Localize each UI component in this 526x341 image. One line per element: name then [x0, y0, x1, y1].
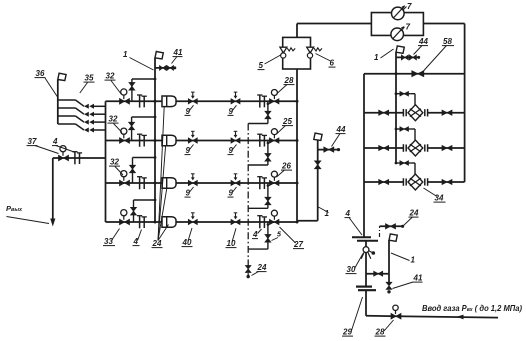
- valves 41: [160, 66, 177, 71]
- label 30: [346, 254, 364, 275]
- valve 9 row 2 (second): [231, 131, 240, 143]
- wire filter row 3: [364, 181, 465, 183]
- label 4 (row4 joint): [252, 229, 262, 239]
- svg-text:27: 27: [293, 240, 303, 249]
- outlet valve filter row 2: [442, 145, 452, 150]
- svg-text:32: 32: [110, 158, 119, 167]
- relief valve 5: [280, 47, 295, 58]
- wire left header: [105, 101, 107, 222]
- joint row 2 (right): [257, 134, 267, 147]
- inlet valve filter row 3: [379, 179, 389, 184]
- svg-text:7: 7: [406, 23, 411, 32]
- svg-text:44: 44: [336, 125, 346, 134]
- valve 9 row 1 (second): [231, 92, 240, 104]
- svg-text:44: 44: [418, 37, 428, 46]
- label 7 (top meter): [403, 2, 413, 11]
- regulator 24 row 4: [162, 217, 176, 228]
- inlet flow arrow: [457, 315, 464, 320]
- label 28 row1: [277, 76, 295, 94]
- wire collector to meter loop: [297, 24, 371, 38]
- drain outlet dot: [247, 275, 250, 278]
- flow meter 7 (top): [392, 5, 405, 19]
- wire blowdown row 2: [248, 141, 269, 166]
- check arrows on taps: [84, 104, 94, 133]
- valve 58: [412, 71, 424, 77]
- svg-text:36: 36: [36, 69, 45, 78]
- wire vent stack: [317, 140, 319, 221]
- label 9 row3 a: [185, 187, 194, 198]
- wire filter bypass row 2: [395, 128, 415, 140]
- label 33: [103, 229, 120, 247]
- svg-text:4: 4: [345, 209, 351, 218]
- joint 4 (output): [72, 152, 82, 165]
- label 5 (row4 blowdown): [272, 232, 282, 241]
- vent flag 36: [58, 73, 66, 80]
- wire row 3: [106, 182, 298, 184]
- bypass valve 2: [129, 122, 135, 130]
- gauge row 4 (right): [271, 210, 277, 220]
- wire below cock: [365, 252, 367, 286]
- wire collector: [296, 69, 298, 221]
- svg-text:10: 10: [227, 239, 236, 248]
- regulator 24 row 3: [162, 178, 176, 189]
- wire filter bypass row 3: [395, 162, 415, 174]
- label 36: [35, 69, 58, 97]
- label 24 (impulse): [404, 209, 419, 226]
- regulator valve row 2: [120, 138, 130, 144]
- svg-text:9: 9: [186, 146, 191, 155]
- node collector row 1: [296, 100, 299, 103]
- label Pvyh: [6, 204, 49, 224]
- label 9 row1 b: [228, 105, 237, 116]
- wire bus riser: [154, 58, 156, 102]
- svg-text:9: 9: [186, 107, 191, 116]
- label 7 (bottom meter): [401, 23, 411, 32]
- bypass valve 4: [131, 207, 137, 215]
- joint 4 row 1: [137, 95, 147, 108]
- gauge row 4: [121, 210, 127, 220]
- safety valve box: [283, 37, 311, 69]
- node collector row 3: [296, 182, 299, 185]
- wire vent pole 36: [57, 80, 59, 125]
- svg-text:6: 6: [330, 59, 335, 68]
- gauge valve row 1 (right): [269, 99, 279, 104]
- label 28 (inlet): [375, 320, 394, 337]
- blowdown valve row 2: [265, 154, 271, 162]
- label 4 row4: [133, 230, 142, 247]
- wire vent stack (inlet): [388, 240, 390, 274]
- wire to purge cock: [365, 241, 367, 247]
- regulator 24 row 1: [162, 96, 176, 107]
- node bus row 2: [154, 139, 157, 142]
- label 1 (inlet vent): [391, 253, 416, 265]
- wire blowdown row 1: [248, 101, 269, 123]
- valve 9 row 2 (first): [188, 131, 197, 143]
- node collector row 4: [296, 221, 299, 224]
- wire output branch: [53, 157, 106, 159]
- bypass valve 1: [129, 83, 135, 91]
- regulator 24 row 2: [162, 135, 176, 146]
- svg-text:58: 58: [443, 37, 452, 46]
- label 32 row1: [105, 72, 122, 95]
- svg-text:41: 41: [173, 48, 183, 57]
- svg-text:32: 32: [109, 115, 118, 124]
- valve 9 row 3 (first): [188, 174, 197, 186]
- label 32 row2: [108, 115, 123, 133]
- meter loop frame: [371, 13, 423, 36]
- svg-text:9: 9: [229, 107, 234, 116]
- svg-text:40: 40: [182, 238, 192, 247]
- svg-text:28: 28: [284, 76, 294, 85]
- svg-text:1: 1: [123, 50, 128, 59]
- svg-text:32: 32: [106, 72, 115, 81]
- joint 4 (main inlet): [352, 237, 378, 241]
- label 41 (drain): [393, 274, 423, 289]
- label 4 (output joint): [52, 137, 76, 153]
- wire impulse tee: [366, 273, 389, 275]
- gauge row 2 (right): [271, 129, 277, 139]
- label 9 row1 a: [185, 105, 194, 116]
- svg-text:9: 9: [229, 189, 234, 198]
- vent flag (bus): [155, 52, 163, 59]
- regulator valve row 4: [120, 219, 130, 225]
- joint row 1 (right): [257, 95, 267, 108]
- vent flag: [314, 133, 322, 140]
- label gas inlet text: [422, 304, 522, 313]
- valve 9 row 3 (second): [231, 174, 240, 186]
- gauge valve row 4 (right): [269, 219, 279, 224]
- wire output down: [52, 158, 54, 220]
- label 10: [226, 228, 237, 248]
- valve 9 row 4 (first): [188, 213, 197, 225]
- label 34: [424, 188, 446, 203]
- svg-text:29: 29: [342, 328, 352, 337]
- vent flag (inlet): [389, 234, 397, 241]
- label 58: [423, 37, 454, 72]
- wire bypass top: [364, 73, 465, 75]
- svg-text:1: 1: [374, 53, 379, 62]
- wire blowdown row 3: [248, 183, 269, 208]
- svg-text:Ввод газа Рвх ( до 1,2 МПа): Ввод газа Рвх ( до 1,2 МПа): [422, 304, 522, 313]
- label 9 row2 a: [185, 145, 194, 156]
- blowdown valve row 4: [265, 235, 271, 243]
- joint row 4 (right): [257, 216, 267, 229]
- gauge row 1 (right): [271, 90, 277, 100]
- label 32 row3: [109, 158, 123, 176]
- gauge row 3 (right): [271, 171, 277, 181]
- node bus row 4: [154, 221, 157, 224]
- joint 4 row 2: [137, 134, 147, 147]
- label 4 (main joint): [345, 209, 363, 235]
- wire bypass 4: [134, 199, 157, 222]
- wire branch 41: [155, 67, 175, 69]
- filter 34 row 3: [403, 174, 427, 190]
- wire drain below tee: [388, 274, 390, 284]
- relief valve 6: [307, 47, 322, 58]
- svg-text:9: 9: [229, 146, 234, 155]
- valves 44 (filter vent): [401, 55, 420, 60]
- drain valve 41: [386, 282, 392, 293]
- purge cock 30: [361, 247, 375, 259]
- node bus row 3: [154, 182, 157, 185]
- valve 24 (impulse): [386, 224, 405, 229]
- label 44 (filter vent): [414, 37, 429, 55]
- svg-text:34: 34: [435, 194, 444, 203]
- wire bus: [154, 101, 156, 222]
- wire collector elbow to vent stack: [297, 220, 318, 222]
- outlet valve filter row 1: [442, 110, 452, 115]
- node bus row 1: [154, 100, 157, 103]
- svg-text:35: 35: [85, 74, 94, 83]
- drain valve 24: [245, 266, 251, 273]
- wire bypass 3: [133, 156, 157, 183]
- label 26 row3: [277, 162, 293, 178]
- output arrow: [50, 219, 55, 227]
- wire branch 24 (impulse): [380, 226, 403, 237]
- svg-text:24: 24: [257, 263, 267, 272]
- wire row 1: [106, 100, 298, 102]
- flow meter 7 (bottom): [391, 26, 404, 40]
- label 9 row3 b: [228, 187, 237, 198]
- svg-text:41: 41: [413, 274, 423, 283]
- wire bypass 2: [132, 116, 157, 141]
- filter 34 row 1: [403, 105, 427, 121]
- inlet valve filter row 1: [379, 110, 389, 115]
- label 27 row4: [280, 227, 305, 249]
- regulator valve row 3: [120, 180, 130, 186]
- wire row 2: [106, 140, 298, 142]
- wire filter header: [395, 52, 398, 163]
- svg-text:4: 4: [252, 230, 258, 239]
- label 6: [316, 54, 336, 68]
- label 40: [182, 228, 193, 247]
- gauge row 2: [121, 128, 127, 138]
- svg-text:4: 4: [133, 237, 139, 246]
- label 24 (regulators): [152, 239, 163, 248]
- wire branch 44 (filter vent): [396, 56, 419, 58]
- vent flag (filter header): [396, 46, 404, 53]
- svg-text:26: 26: [281, 162, 291, 171]
- valve (impulse tee): [374, 271, 383, 276]
- svg-text:33: 33: [104, 237, 113, 246]
- valve 9 row 4 (second): [231, 213, 240, 225]
- wire meter loop to right riser: [423, 23, 464, 25]
- label 5: [258, 55, 282, 71]
- label 25 row2: [277, 117, 294, 134]
- bypass valve 3: [130, 165, 136, 173]
- gauge valve row 3 (right): [269, 180, 279, 185]
- bypass valve filter row 2: [400, 127, 409, 132]
- regulator valve row 1: [120, 99, 130, 105]
- svg-text:1: 1: [411, 256, 416, 265]
- bypass valve filter row 1: [400, 91, 409, 96]
- label 24 (drain): [252, 263, 267, 276]
- label 41: [172, 48, 183, 64]
- svg-text:28: 28: [375, 328, 385, 337]
- wire bypass 1: [132, 78, 157, 102]
- outlet valve filter row 3: [442, 179, 452, 184]
- label 1 (bus vent): [123, 50, 154, 70]
- gauge on valve 37: [60, 146, 66, 156]
- svg-text:4: 4: [52, 137, 58, 146]
- label 29: [342, 297, 363, 337]
- wire gas inlet: [366, 316, 498, 318]
- gauge on inlet valve: [393, 305, 398, 314]
- wire drain dash-dot: [247, 124, 249, 277]
- label 9 row2 b: [228, 145, 237, 156]
- svg-text:25: 25: [282, 117, 292, 126]
- wire left riser (filters): [363, 74, 365, 237]
- gauge row 3: [121, 171, 127, 181]
- valve 9 row 1 (first): [188, 92, 197, 104]
- inlet valve filter row 2: [379, 145, 389, 150]
- joint 29: [356, 287, 376, 291]
- node collector row 2: [296, 139, 299, 142]
- label 44: [332, 125, 346, 147]
- valve on vent stack: [315, 161, 321, 169]
- wire filter row 2: [364, 147, 465, 149]
- gauge row 1: [121, 89, 127, 99]
- svg-text:37: 37: [28, 137, 37, 146]
- wire inlet riser: [365, 290, 367, 316]
- filter 34 row 2: [403, 140, 427, 156]
- wires consumer taps: [58, 100, 106, 130]
- blowdown valve row 1: [265, 111, 271, 119]
- wire vent branch 44: [318, 149, 339, 151]
- wire right riser: [464, 24, 466, 183]
- svg-text:24: 24: [152, 239, 162, 248]
- valve 37: [59, 155, 69, 161]
- svg-text:30: 30: [347, 265, 356, 274]
- joint 4 row 4: [137, 216, 147, 229]
- svg-text:24: 24: [409, 209, 419, 218]
- label 1 (filter vent): [374, 49, 394, 62]
- blowdown valve row 3: [265, 197, 271, 205]
- svg-text:9: 9: [186, 189, 191, 198]
- svg-text:5: 5: [259, 61, 264, 70]
- bypass valve filter row 3: [400, 161, 409, 166]
- wire filter bypass row 1: [395, 92, 415, 104]
- wire blowdown row 4: [248, 222, 269, 249]
- joint 4 row 3: [137, 177, 147, 190]
- label 37: [27, 137, 59, 154]
- gauge valve row 2 (right): [269, 138, 279, 143]
- leaders 24 fan: [158, 107, 169, 241]
- label 1 (vent stack): [318, 207, 329, 218]
- wire row 4: [106, 221, 298, 223]
- valve 44: [324, 147, 340, 152]
- label 35: [80, 74, 95, 94]
- svg-text:7: 7: [407, 2, 412, 11]
- joint row 3 (right): [257, 177, 267, 190]
- wire filter row 1: [364, 112, 465, 114]
- valve 28 (inlet): [391, 313, 401, 319]
